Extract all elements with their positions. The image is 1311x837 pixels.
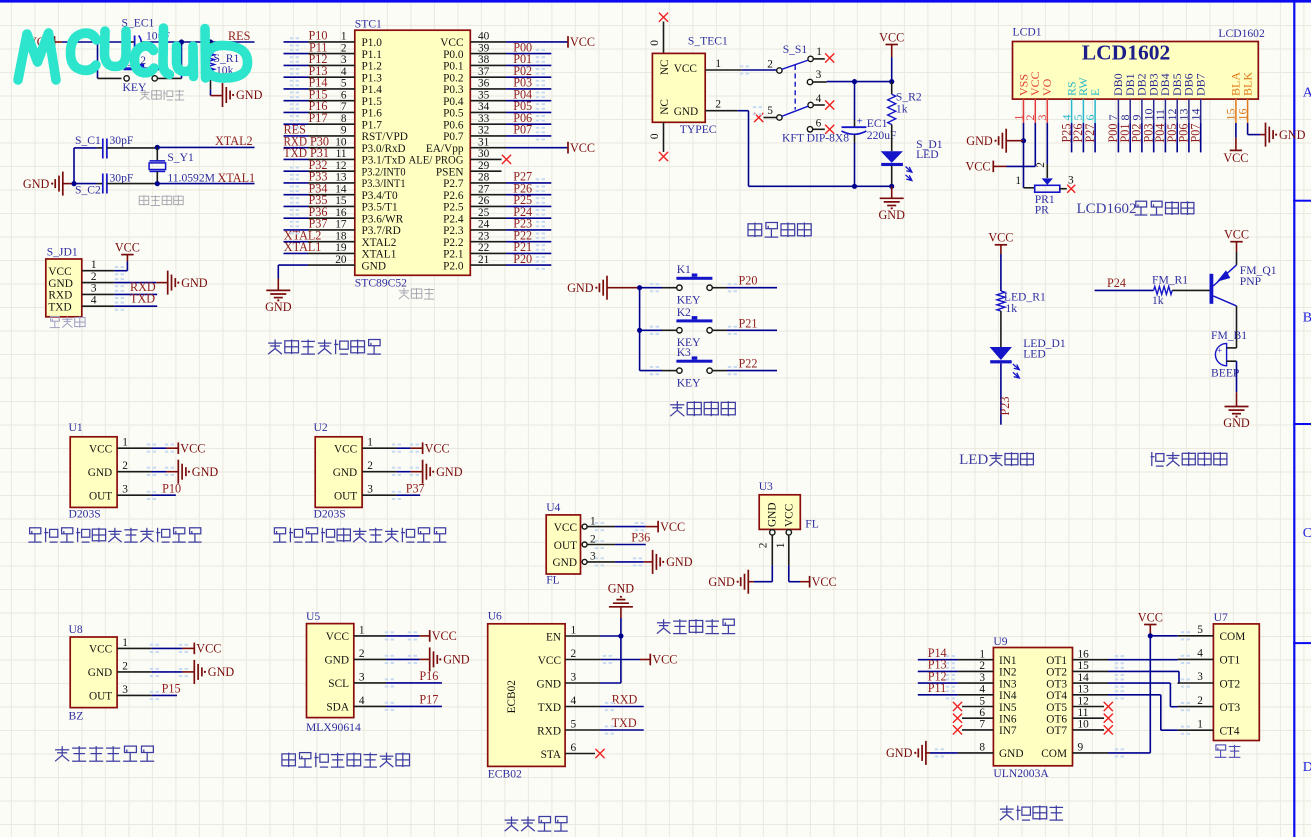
svg-text:U7: U7 xyxy=(1214,611,1228,624)
svg-text:OT5: OT5 xyxy=(1046,702,1067,714)
svg-text:OT6: OT6 xyxy=(1046,714,1067,726)
svg-text:3: 3 xyxy=(122,684,128,696)
svg-text:IN1: IN1 xyxy=(999,655,1017,667)
wire gnd U2 xyxy=(396,471,410,473)
wire node2 to RES label xyxy=(211,41,255,43)
wire net P26 xyxy=(506,194,551,196)
wire key column xyxy=(639,288,641,371)
ground buzzer xyxy=(1225,407,1249,414)
wire COM U7 xyxy=(1150,635,1177,637)
svg-text:U8: U8 xyxy=(69,623,83,636)
contact 5 s_s1 xyxy=(777,115,782,120)
svg-text:S_C1: S_C1 xyxy=(75,134,101,147)
svg-text:P16: P16 xyxy=(419,669,438,683)
svg-text:FM_R1: FM_R1 xyxy=(1152,274,1188,287)
svg-text:2: 2 xyxy=(91,271,97,283)
svg-text:3: 3 xyxy=(341,54,347,66)
svg-text:IN5: IN5 xyxy=(999,702,1017,714)
svg-text:LED: LED xyxy=(959,452,988,468)
svg-text:P20: P20 xyxy=(513,252,532,266)
svg-text:NC: NC xyxy=(659,99,671,115)
svg-text:7: 7 xyxy=(341,101,347,113)
wire net P02 lcd xyxy=(1141,123,1143,152)
wire K2 to P21 xyxy=(712,329,727,331)
pin 3 U9 xyxy=(958,682,994,684)
caption MCU xyxy=(399,288,434,299)
svg-text:VCC: VCC xyxy=(115,240,140,254)
pin 0 typec top xyxy=(663,22,665,54)
svg-text:0: 0 xyxy=(649,40,661,46)
svg-text:VO: VO xyxy=(1040,78,1054,96)
button K1 xyxy=(640,287,662,289)
pin 15 P3.5 xyxy=(308,205,355,207)
svg-text:IN3: IN3 xyxy=(999,678,1017,690)
pin 3 S_JD1 xyxy=(82,293,114,295)
node switch-top xyxy=(179,39,184,44)
svg-text:IN6: IN6 xyxy=(999,714,1017,726)
svg-text:3: 3 xyxy=(1197,671,1203,683)
pin 10 U9 nc xyxy=(1073,729,1105,731)
svg-text:TYPEC: TYPEC xyxy=(680,123,717,136)
svg-text:29: 29 xyxy=(478,160,490,172)
svg-text:32: 32 xyxy=(478,125,490,137)
wire OT3 to U7 xyxy=(1108,682,1170,684)
resistor LED_R1 1k xyxy=(997,291,1005,311)
wire VCC pin31 xyxy=(506,147,568,149)
svg-text:LED: LED xyxy=(1023,348,1046,361)
svg-text:OUT: OUT xyxy=(554,540,577,552)
svg-text:P0.0: P0.0 xyxy=(443,49,464,61)
svg-text:0: 0 xyxy=(649,133,661,139)
pin 8 U9 GND xyxy=(958,752,994,754)
svg-text:TXD: TXD xyxy=(538,702,561,714)
svg-text:GND: GND xyxy=(265,300,292,314)
no-connect U9 pin7 xyxy=(953,725,962,734)
wire net RXD mcu xyxy=(284,147,309,149)
svg-text:2: 2 xyxy=(571,648,577,660)
svg-text:GND: GND xyxy=(878,208,905,222)
svg-text:OUT: OUT xyxy=(334,491,357,503)
svg-text:9: 9 xyxy=(1078,742,1084,754)
pin 1 U9 xyxy=(958,659,994,661)
svg-text:13: 13 xyxy=(1078,684,1090,696)
caption key circuit xyxy=(670,401,735,416)
svg-text:3: 3 xyxy=(571,672,577,684)
wire net RES mcu xyxy=(284,135,309,137)
wire net P04 xyxy=(506,100,551,102)
svg-text:P1.6: P1.6 xyxy=(362,108,383,120)
svg-text:19: 19 xyxy=(335,242,347,254)
resistor FM_R1 1k xyxy=(1154,286,1173,294)
power VCC U3 xyxy=(809,576,811,588)
svg-text:1: 1 xyxy=(1015,175,1021,187)
svg-text:P17: P17 xyxy=(419,693,438,707)
svg-text:STC1: STC1 xyxy=(355,18,382,31)
svg-text:P20: P20 xyxy=(739,274,758,288)
contact 3 s_s1 xyxy=(807,79,812,84)
wire vcc U3 xyxy=(788,565,790,582)
svg-text:3: 3 xyxy=(122,484,128,496)
sheet border right xyxy=(1293,0,1295,837)
node stepper vcc xyxy=(1148,633,1153,638)
svg-text:2: 2 xyxy=(1035,162,1047,168)
svg-text:11: 11 xyxy=(336,148,347,160)
svg-text:P0.6: P0.6 xyxy=(443,120,464,132)
svg-text:P1.0: P1.0 xyxy=(362,37,383,49)
wire net P05 xyxy=(506,111,551,113)
svg-text:OT4: OT4 xyxy=(1046,690,1067,702)
svg-text:1: 1 xyxy=(775,543,787,549)
pin 2 U2 GND xyxy=(362,471,396,473)
svg-text:GND: GND xyxy=(48,278,72,290)
capacitor EC1 220uF xyxy=(854,82,856,120)
node reset-right xyxy=(208,39,213,44)
svg-text:KEY: KEY xyxy=(677,294,701,307)
svg-text:VCC: VCC xyxy=(538,655,561,667)
svg-text:STA: STA xyxy=(541,749,562,761)
svg-text:1: 1 xyxy=(367,437,373,449)
svg-text:1k: 1k xyxy=(1152,294,1164,307)
svg-text:5: 5 xyxy=(1197,624,1203,636)
svg-text:U9: U9 xyxy=(993,635,1007,648)
svg-text:1: 1 xyxy=(590,515,596,527)
wire out U1 xyxy=(151,494,176,496)
svg-text:11: 11 xyxy=(1078,707,1089,719)
svg-text:FL: FL xyxy=(805,517,819,530)
wire switch right branch up xyxy=(157,77,181,79)
svg-text:GND: GND xyxy=(553,557,577,569)
pin 9 U9 COM xyxy=(1073,752,1109,754)
wire net P27 lcd xyxy=(1094,123,1096,152)
svg-text:TXD: TXD xyxy=(130,292,155,306)
svg-text:VCC: VCC xyxy=(554,522,577,534)
pin 1 U4 xyxy=(587,526,615,528)
svg-text:4: 4 xyxy=(91,294,97,306)
zone tick 2 xyxy=(1293,423,1311,425)
pin 2 typec xyxy=(705,110,738,112)
svg-text:1: 1 xyxy=(122,637,128,649)
svg-text:GND: GND xyxy=(192,465,219,479)
power VCC pin40 xyxy=(567,36,569,48)
svg-text:VCC: VCC xyxy=(784,504,796,527)
svg-text:VCC: VCC xyxy=(432,629,457,643)
svg-text:3: 3 xyxy=(367,484,373,496)
contact 6 s_s1 xyxy=(807,127,812,132)
svg-text:30pF: 30pF xyxy=(110,171,134,184)
power VCC BLA xyxy=(1230,149,1242,151)
pin 7 P1.6 xyxy=(308,111,355,113)
svg-text:U4: U4 xyxy=(546,501,560,514)
node rail ec1 xyxy=(852,184,857,189)
power VCC U8 xyxy=(193,643,195,655)
svg-text:OT3: OT3 xyxy=(1046,678,1067,690)
svg-text:27: 27 xyxy=(478,184,490,196)
ground U3 xyxy=(741,570,749,594)
svg-text:GND: GND xyxy=(999,748,1023,760)
svg-text:9: 9 xyxy=(341,125,347,137)
svg-text:VCC: VCC xyxy=(326,631,349,643)
wire net P26 lcd xyxy=(1082,123,1084,152)
no-connect STA xyxy=(595,749,604,758)
svg-text:1: 1 xyxy=(571,625,577,637)
ground power xyxy=(891,186,893,198)
wire net P06 xyxy=(506,123,551,125)
svg-text:38: 38 xyxy=(478,54,490,66)
pin 2 U9 xyxy=(958,670,994,672)
svg-text:P0.5: P0.5 xyxy=(443,108,464,120)
svg-text:3: 3 xyxy=(1035,115,1049,121)
svg-text:ECB02: ECB02 xyxy=(506,680,518,714)
svg-text:K1: K1 xyxy=(677,263,691,276)
node rail led xyxy=(889,184,894,189)
svg-text:1: 1 xyxy=(122,437,128,449)
crystal S_Y1 xyxy=(156,147,158,161)
svg-text:2: 2 xyxy=(367,460,373,472)
pin 3 U1 OUT xyxy=(117,494,151,496)
svg-text:GND: GND xyxy=(181,276,208,290)
svg-text:VCC: VCC xyxy=(570,35,595,49)
wire net P32 xyxy=(284,170,309,172)
wire OT4 to U7 xyxy=(1108,694,1161,696)
wire JD1 pin1 to VCC xyxy=(114,270,127,272)
svg-text:XTAL1: XTAL1 xyxy=(362,249,397,261)
svg-text:FM_B1: FM_B1 xyxy=(1211,329,1247,342)
wire net P17 xyxy=(284,123,309,125)
wire net P11 xyxy=(284,53,309,55)
wire net P33 xyxy=(284,182,309,184)
wire K1 to P20 xyxy=(712,287,727,289)
svg-text:1: 1 xyxy=(816,46,822,58)
pin 2 U1 GND xyxy=(117,471,151,473)
svg-text:P0.1: P0.1 xyxy=(443,61,463,73)
svg-text:4: 4 xyxy=(979,684,985,696)
power VCC led xyxy=(995,244,1007,246)
svg-text:GND: GND xyxy=(208,665,235,679)
wire buzzer to gnd xyxy=(1236,361,1238,392)
pin 4 U5 xyxy=(354,705,386,707)
wire net P36 xyxy=(284,217,309,219)
svg-text:P10: P10 xyxy=(162,481,181,495)
node vcc rail xyxy=(852,79,857,84)
wire node to XTAL2 xyxy=(157,146,254,148)
pin 11 U9 nc xyxy=(1073,717,1105,719)
svg-text:OUT: OUT xyxy=(89,491,112,503)
no-connect pot pin3 xyxy=(1067,185,1075,193)
wire net P00 lcd xyxy=(1117,123,1119,152)
svg-text:36: 36 xyxy=(478,78,490,90)
wire rxd U6 xyxy=(600,706,644,708)
compile marks xyxy=(115,37,1190,757)
svg-text:S_TEC1: S_TEC1 xyxy=(688,35,728,48)
no-connect s_s1 pin6 xyxy=(825,125,834,134)
svg-text:VCC: VCC xyxy=(652,653,677,667)
diode LED_D1 xyxy=(990,347,1012,360)
svg-text:35: 35 xyxy=(478,90,490,102)
svg-text:U5: U5 xyxy=(306,610,320,623)
wire r2 to led xyxy=(891,125,893,152)
svg-text:RXD: RXD xyxy=(612,693,638,707)
svg-text:LCD1602: LCD1602 xyxy=(1077,201,1137,217)
svg-text:P0.3: P0.3 xyxy=(443,84,464,96)
svg-text:VCC: VCC xyxy=(1138,610,1163,624)
power VCC stepper xyxy=(1144,624,1156,626)
svg-text:U2: U2 xyxy=(314,421,328,434)
svg-text:IN2: IN2 xyxy=(999,667,1017,679)
wire led to P23 xyxy=(1000,363,1002,424)
svg-text:1: 1 xyxy=(91,259,97,271)
wire led to rail xyxy=(891,166,893,186)
wire JD1 pin2 to GND xyxy=(114,282,156,284)
potentiometer PR1 xyxy=(1042,178,1053,185)
svg-text:P17: P17 xyxy=(309,111,328,125)
svg-text:P2.0: P2.0 xyxy=(443,260,464,272)
wire JD1 pin4 TXD xyxy=(114,305,157,307)
pin 5 U9 nc xyxy=(962,706,993,708)
no-connect s_s1 pin5 xyxy=(754,113,763,122)
no-connect U9 pin12 xyxy=(1104,702,1113,711)
svg-text:C: C xyxy=(1303,526,1311,541)
wire net P24 xyxy=(506,217,551,219)
pin 9 RST xyxy=(308,135,355,137)
wire node to XTAL1 xyxy=(157,183,254,185)
svg-text:OT2: OT2 xyxy=(1220,678,1241,690)
pin 4 P1.3 xyxy=(308,76,355,78)
svg-text:VCC: VCC xyxy=(812,575,837,589)
pin 11 P3.1 xyxy=(308,158,355,160)
wire VCC lcd xyxy=(1034,123,1036,166)
pin 6 U9 nc xyxy=(962,717,993,719)
svg-text:34: 34 xyxy=(478,101,490,113)
wire net P12 xyxy=(918,682,958,684)
no-connect typec top xyxy=(659,13,668,22)
wire pin3 to vcc node xyxy=(827,81,892,83)
ground LCD xyxy=(999,129,1007,153)
svg-text:4: 4 xyxy=(571,695,577,707)
wire net XTAL1 mcu xyxy=(284,252,309,254)
pin 3 U5 xyxy=(354,682,386,684)
pin 3 U4 xyxy=(587,561,615,563)
svg-text:OT7: OT7 xyxy=(1046,725,1067,737)
pin 16 U9 OT1 xyxy=(1073,659,1109,661)
svg-text:BLK: BLK xyxy=(1240,72,1254,96)
ground JD1 xyxy=(168,271,176,295)
wire VCC pin40 xyxy=(506,41,568,43)
svg-text:VCC: VCC xyxy=(425,441,450,455)
wire P17 xyxy=(386,705,442,707)
zone tick 3 xyxy=(1293,642,1311,644)
wire VCC to node xyxy=(55,41,63,43)
svg-text:16: 16 xyxy=(335,207,347,219)
svg-text:P3.0/RxD: P3.0/RxD xyxy=(362,143,406,155)
svg-text:PNP: PNP xyxy=(1240,275,1261,288)
no-connect U9 pin5 xyxy=(953,702,962,711)
pin 4 S_JD1 xyxy=(82,305,114,307)
svg-text:8: 8 xyxy=(979,742,985,754)
svg-text:1k: 1k xyxy=(896,102,908,115)
svg-text:GND: GND xyxy=(23,177,50,191)
svg-text:GND: GND xyxy=(708,575,735,589)
wire P24 xyxy=(1095,289,1154,291)
ground crystal xyxy=(55,172,63,196)
ground reset xyxy=(223,83,231,107)
wire gnd U9 xyxy=(930,752,958,754)
svg-text:A: A xyxy=(1303,86,1311,101)
wire VO to pot wiper xyxy=(1046,123,1048,164)
caption power circuit xyxy=(748,223,811,238)
ground U9 xyxy=(918,741,926,765)
svg-text:6: 6 xyxy=(341,90,347,102)
svg-text:GND: GND xyxy=(966,134,993,148)
svg-text:RST/VPD: RST/VPD xyxy=(362,131,408,143)
svg-text:PR: PR xyxy=(1035,204,1049,217)
svg-text:E: E xyxy=(1088,89,1102,96)
wire net P23 xyxy=(506,229,551,231)
wire gnd node to C2 xyxy=(74,183,97,185)
svg-text:PSEN: PSEN xyxy=(436,167,464,179)
transistor FM_Q1 PNP xyxy=(1210,274,1214,304)
svg-text:14: 14 xyxy=(335,184,347,196)
svg-text:SCL: SCL xyxy=(328,678,349,690)
no-connect typec bottom xyxy=(659,152,668,161)
svg-text:XTAL1: XTAL1 xyxy=(218,171,256,185)
svg-text:GND: GND xyxy=(608,581,635,595)
wire OT2 to U7 xyxy=(1108,670,1179,672)
pin 5 U6 RXD xyxy=(565,729,600,731)
wire VSS to pot pin1 xyxy=(1023,141,1025,188)
pin 20 GND xyxy=(308,264,355,266)
ground U5 xyxy=(430,647,438,671)
pin 2 U8 xyxy=(117,671,152,673)
button K2 xyxy=(640,329,662,331)
svg-text:VCC: VCC xyxy=(89,644,112,656)
svg-text:OT1: OT1 xyxy=(1046,655,1067,667)
wire left branch down to switch xyxy=(97,42,99,78)
wire BLK to GND xyxy=(1247,123,1249,135)
svg-text:24: 24 xyxy=(478,219,490,231)
resistor S_R2 1k xyxy=(891,82,893,95)
logo MCUclub xyxy=(18,28,248,80)
wire S_R1 to GND xyxy=(210,73,212,89)
svg-text:P15: P15 xyxy=(162,682,181,696)
svg-text:S_C2: S_C2 xyxy=(75,184,101,197)
svg-text:GND: GND xyxy=(325,655,349,667)
svg-text:P22: P22 xyxy=(739,357,758,371)
svg-text:XTAL2: XTAL2 xyxy=(362,237,397,249)
pin 3 U6 GND xyxy=(565,682,600,684)
pin 14 U9 OT3 xyxy=(1073,682,1109,684)
pin 8 P1.7 xyxy=(308,123,355,125)
svg-text:P1.3: P1.3 xyxy=(362,73,383,85)
svg-text:3: 3 xyxy=(590,551,596,563)
wire net P35 xyxy=(284,205,309,207)
wire cap to node2 xyxy=(142,41,148,43)
svg-text:D203S: D203S xyxy=(314,508,346,521)
wire net P27 xyxy=(506,182,551,184)
pin 3 P1.2 xyxy=(308,64,355,66)
svg-text:GND: GND xyxy=(1223,416,1250,430)
node xtal2 xyxy=(155,145,160,150)
svg-text:+: + xyxy=(857,116,863,128)
svg-text:3: 3 xyxy=(979,672,985,684)
no-connect U9 pin10 xyxy=(1104,725,1113,734)
svg-text:P1.4: P1.4 xyxy=(362,84,383,96)
svg-text:VCC: VCC xyxy=(196,642,221,656)
svg-text:SDA: SDA xyxy=(326,702,349,714)
svg-text:P2.1: P2.1 xyxy=(443,249,463,261)
svg-text:P37: P37 xyxy=(406,481,425,495)
pin 1 U8 xyxy=(117,647,152,649)
svg-text:COM: COM xyxy=(1041,748,1067,760)
